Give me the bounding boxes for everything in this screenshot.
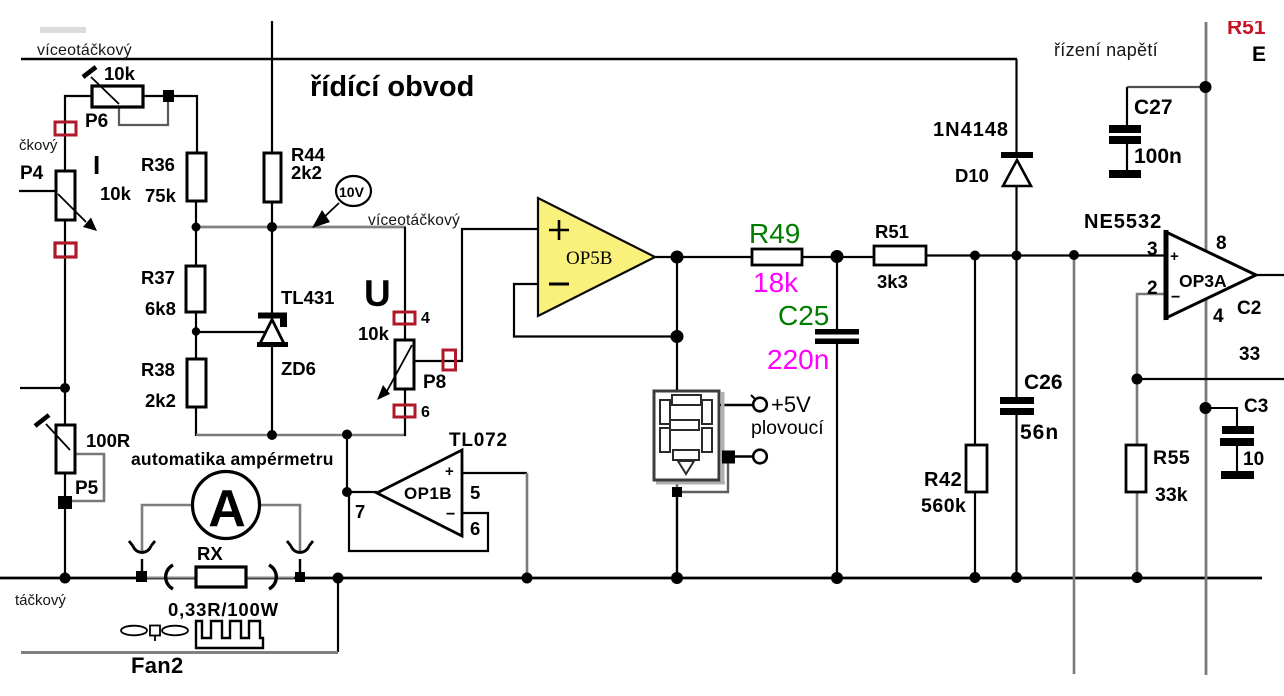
wire left stub at node <box>20 387 65 389</box>
wire C27 middle <box>1126 143 1128 171</box>
node C27 <box>1200 81 1212 93</box>
node R36 bottom <box>192 223 201 232</box>
node TL431 bottom rail <box>267 430 277 440</box>
wire R36-R37 <box>195 201 197 266</box>
svg-text:560k: 560k <box>921 495 966 517</box>
wire C27 branch <box>1127 86 1206 88</box>
svg-text:3: 3 <box>1147 239 1158 260</box>
wire D10 to C26 <box>1015 186 1017 397</box>
svg-text:víceotáčkový: víceotáčkový <box>37 42 132 59</box>
svg-text:8: 8 <box>1216 233 1227 254</box>
svg-text:C26: C26 <box>1024 371 1063 394</box>
wire gray supply x1206 upper <box>1205 22 1208 251</box>
terminal +5V circle <box>751 395 767 411</box>
svg-text:18k: 18k <box>753 267 799 298</box>
wire opto to rail <box>676 492 678 578</box>
clamp left <box>166 565 173 589</box>
svg-text:P4: P4 <box>20 163 44 184</box>
resistor R38 <box>187 359 206 407</box>
svg-text:E: E <box>1252 43 1266 66</box>
clamp right <box>269 565 276 589</box>
connector wiper red <box>443 350 456 370</box>
wire ammeter left <box>142 505 193 552</box>
svg-text:TL431: TL431 <box>281 287 334 308</box>
wire TL431 ref <box>196 331 267 333</box>
wire opto stem <box>676 479 678 492</box>
svg-text:řídící obvod: řídící obvod <box>310 71 474 103</box>
svg-text:TL072: TL072 <box>449 430 508 451</box>
svg-text:10k: 10k <box>358 323 390 344</box>
wire OP5B output <box>655 256 752 258</box>
wire fan gray line <box>21 651 338 654</box>
op-amp OP5B yellow <box>538 198 655 316</box>
svg-text:6: 6 <box>421 404 430 421</box>
wire C25 top drop <box>836 257 838 330</box>
node rail P5 <box>60 573 71 584</box>
wire C30 middle <box>1236 446 1238 472</box>
wire R42 bottom <box>974 492 976 578</box>
potentiometer P5 <box>35 415 75 473</box>
svg-text:R37: R37 <box>141 267 175 288</box>
hook right <box>287 541 313 552</box>
wire P5 bottom to rail <box>64 471 66 578</box>
svg-text:220n: 220n <box>767 344 829 375</box>
svg-text:R49: R49 <box>749 218 800 249</box>
diode D10 <box>1001 152 1033 186</box>
optocoupler display box <box>654 391 725 485</box>
svg-text:100R: 100R <box>86 430 130 451</box>
wire P6 right to R36 <box>141 96 197 153</box>
svg-text:10V: 10V <box>339 184 365 200</box>
node fb y379 <box>1132 374 1143 385</box>
capacitor C26 <box>1000 397 1034 415</box>
node P6-R36 <box>163 90 174 102</box>
wire P4 to P5 vertical <box>64 219 66 426</box>
node rail ammeter right <box>295 572 305 582</box>
wire R51 to OP3A <box>926 254 1166 256</box>
connector pin4 red <box>394 312 415 324</box>
node rail C26 <box>1011 572 1022 583</box>
svg-text:6k8: 6k8 <box>145 298 176 319</box>
wire gray rail segment at RX <box>146 577 294 579</box>
node rail ammeter left <box>136 571 147 582</box>
svg-text:5: 5 <box>470 482 480 503</box>
svg-text:2: 2 <box>1147 278 1158 299</box>
svg-text:víceotáčkový: víceotáčkový <box>368 212 460 229</box>
svg-text:NE5532: NE5532 <box>1084 211 1162 233</box>
svg-text:C25: C25 <box>778 300 829 331</box>
svg-text:−: − <box>446 506 455 523</box>
connector J1 red <box>55 122 76 135</box>
svg-text:R51: R51 <box>875 221 909 242</box>
scan smudge <box>40 27 86 33</box>
node C26 top <box>1012 251 1022 261</box>
node R44 bottom <box>267 222 277 232</box>
wire C25 bottom to rail <box>836 344 838 578</box>
node P5 wiper <box>58 496 72 509</box>
capacitor C25 <box>815 329 859 344</box>
svg-text:táčkový: táčkový <box>15 592 66 609</box>
wire C26 bottom <box>1015 415 1017 578</box>
svg-text:RX: RX <box>197 543 223 564</box>
svg-text:řízení napětí: řízení napětí <box>1054 40 1158 60</box>
wire ammeter right stem <box>299 559 301 573</box>
svg-text:100n: 100n <box>1134 145 1182 168</box>
wire R37-R38 <box>195 312 197 359</box>
label R5 red partial <box>1224 8 1282 39</box>
resistor R51 <box>874 246 926 265</box>
resistor R42 <box>966 445 987 492</box>
svg-text:10: 10 <box>1243 449 1264 470</box>
svg-text:1N4148: 1N4148 <box>933 119 1009 141</box>
potentiometer P6 <box>83 67 143 107</box>
node x1074 top <box>1069 250 1079 260</box>
wire OP1B output link <box>346 435 348 492</box>
svg-text:75k: 75k <box>145 185 177 206</box>
resistor R44 <box>264 153 281 202</box>
svg-text:OP1B: OP1B <box>404 484 452 503</box>
svg-text:automatika ampérmetru: automatika ampérmetru <box>131 449 334 469</box>
heatsink squarewave <box>196 621 263 648</box>
wire OP5B minus feedback <box>514 284 677 337</box>
svg-text:−: − <box>1171 289 1180 306</box>
svg-text:2k2: 2k2 <box>291 162 322 183</box>
svg-text:P8: P8 <box>423 372 446 393</box>
svg-text:C2: C2 <box>1237 298 1261 319</box>
wire P6 left down to P4 <box>65 96 92 172</box>
wire OP3A output <box>1256 274 1284 276</box>
resistor RX <box>196 567 246 587</box>
wire C30 branch <box>1205 408 1237 426</box>
wire feedback y379 <box>1137 378 1284 380</box>
node R37 bottom <box>192 327 200 335</box>
fan symbol <box>121 626 188 642</box>
wire TL431 cathode-anode vertical <box>271 347 273 436</box>
svg-text:R42: R42 <box>924 469 962 491</box>
resistor R37 <box>186 266 205 312</box>
svg-text:U: U <box>364 273 391 314</box>
svg-text:10k: 10k <box>100 183 132 204</box>
wire R44 bottom to 10V node <box>271 202 273 313</box>
svg-text:OP3A: OP3A <box>1179 271 1227 291</box>
wire top rail <box>21 58 1017 61</box>
svg-text:I: I <box>93 150 100 180</box>
node rail opto <box>671 572 683 584</box>
svg-text:ZD6: ZD6 <box>281 358 316 379</box>
svg-text:R38: R38 <box>141 359 175 380</box>
resistor R36 <box>187 153 206 201</box>
wire R49 to R51 <box>802 256 874 258</box>
wire opto lower loop <box>682 463 728 492</box>
svg-text:+: + <box>1170 248 1179 265</box>
svg-text:10k: 10k <box>104 63 136 84</box>
node OP5B out <box>671 251 684 264</box>
wire P6 wiper loop <box>119 97 168 125</box>
svg-text:+5V: +5V <box>771 392 811 417</box>
node R49-R51 <box>831 250 844 263</box>
wire R42 top drop <box>974 255 976 445</box>
wire opto +5V terminal <box>719 404 753 406</box>
svg-text:3k3: 3k3 <box>877 271 908 292</box>
wire output down to opto <box>676 257 678 390</box>
hook left <box>129 541 155 552</box>
node rail R55 <box>1132 572 1143 583</box>
wire bottom rail <box>0 577 1262 580</box>
potentiometer P4 <box>56 171 97 231</box>
node C30 <box>1200 402 1212 414</box>
resistor R55 <box>1126 445 1146 492</box>
10V bubble <box>312 176 371 228</box>
svg-text:P5: P5 <box>75 478 99 499</box>
node OP5B fb <box>671 330 684 343</box>
wire OP1B plus drop gray <box>526 473 529 578</box>
svg-text:33: 33 <box>1239 344 1260 365</box>
node rail fan <box>333 573 344 584</box>
connector pin6 red <box>394 405 415 417</box>
node opto gnd square <box>672 487 682 497</box>
terminal square joint <box>722 451 735 464</box>
wire OP3A pin2 stub <box>1137 294 1166 445</box>
svg-text:čkový: čkový <box>19 137 58 154</box>
svg-text:OP5B: OP5B <box>566 248 612 269</box>
wire R44 top vertical <box>271 21 273 152</box>
wire R38 bottom <box>195 407 197 436</box>
wire P8 wiper to OP5B plus <box>414 229 539 361</box>
wire gray supply x1206 lower <box>1205 299 1208 675</box>
wire opto lower terminal <box>735 455 753 457</box>
node rail OP1B plus <box>522 573 533 584</box>
capacitor C27 <box>1109 125 1141 178</box>
wire OP1B feedback <box>349 493 488 551</box>
node rail R42 <box>970 572 981 583</box>
svg-text:+: + <box>445 463 454 480</box>
node mid rail x347 <box>342 430 352 440</box>
svg-text:P6: P6 <box>85 111 108 132</box>
wire fan drop <box>337 578 339 652</box>
zener TL431 ZD6 <box>257 313 288 348</box>
wire U-pot bottom <box>404 388 406 436</box>
potentiometer P8 (U) <box>377 340 414 400</box>
svg-text:56n: 56n <box>1020 421 1059 444</box>
op-amp OP3A <box>1166 230 1256 320</box>
svg-text:plovoucí: plovoucí <box>751 417 824 439</box>
svg-text:6: 6 <box>470 518 480 539</box>
svg-text:C3: C3 <box>1244 396 1268 417</box>
svg-text:C27: C27 <box>1134 96 1173 119</box>
svg-text:R36: R36 <box>141 154 175 175</box>
wire 10V gray node line <box>196 226 406 229</box>
svg-text:0,33R/100W: 0,33R/100W <box>168 599 279 620</box>
op-amp OP1B <box>377 450 462 536</box>
node rail C25 <box>831 572 843 584</box>
wire gray supply branch x1074 <box>1073 255 1076 675</box>
wire left stub to P4 <box>19 190 57 192</box>
ammeter A <box>193 472 260 539</box>
node P4-P5 <box>60 383 70 393</box>
wire U-pot top drop <box>404 227 406 340</box>
wire D10 branch vertical <box>1015 59 1017 153</box>
svg-text:7: 7 <box>355 501 365 522</box>
resistor R49 <box>752 249 802 265</box>
svg-text:4: 4 <box>421 310 430 327</box>
svg-text:R55: R55 <box>1153 447 1190 469</box>
wire mid gray rail y435 <box>196 434 406 437</box>
node R42 top <box>970 251 980 261</box>
capacitor C30 <box>1220 426 1254 479</box>
wire P5 wiper loop <box>70 454 104 501</box>
svg-text:Fan2: Fan2 <box>131 653 184 678</box>
svg-text:D10: D10 <box>955 165 989 186</box>
svg-text:33k: 33k <box>1155 484 1188 506</box>
wire ammeter right <box>259 505 300 552</box>
svg-text:A: A <box>208 480 246 538</box>
wire C27 top <box>1126 87 1128 125</box>
wire OP1B plus input <box>462 472 527 474</box>
svg-text:2k2: 2k2 <box>145 390 176 411</box>
terminal lower circle <box>753 450 767 464</box>
svg-text:4: 4 <box>1213 306 1224 327</box>
node OP1B out <box>342 487 352 497</box>
wire R55 bottom <box>1136 492 1139 578</box>
wire OP1B output stub <box>347 491 377 493</box>
connector J2 red <box>55 243 76 257</box>
wire ammeter left stem <box>141 559 143 573</box>
